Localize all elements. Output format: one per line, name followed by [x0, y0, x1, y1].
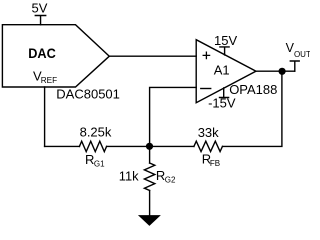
svg-text:5V: 5V: [32, 0, 48, 15]
svg-text:A1: A1: [214, 63, 230, 78]
svg-text:DAC: DAC: [28, 45, 56, 61]
svg-text:OPA188: OPA188: [229, 82, 277, 97]
svg-text:11k: 11k: [119, 169, 139, 184]
svg-text:8.25k: 8.25k: [80, 125, 112, 140]
svg-text:33k: 33k: [198, 125, 219, 140]
svg-text:15V: 15V: [214, 33, 237, 48]
svg-text:-15V: -15V: [208, 96, 236, 111]
svg-text:DAC80501: DAC80501: [56, 87, 120, 102]
